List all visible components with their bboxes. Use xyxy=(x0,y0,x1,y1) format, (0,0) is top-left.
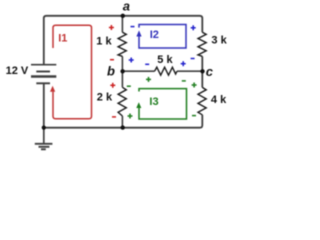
plus green R4 top (I3) xyxy=(192,83,197,88)
wire: 2k down to bottom junction xyxy=(121,116,123,128)
node b dot xyxy=(120,69,124,73)
ground xyxy=(35,128,53,150)
minus green R4 bottom (I3) xyxy=(192,115,196,117)
plus red R1 top (I1) xyxy=(109,25,114,30)
plus blue R3 top (I2) xyxy=(191,25,196,30)
wire: 1k down to node b xyxy=(121,56,123,71)
svg-text:1 k: 1 k xyxy=(96,36,112,48)
wire: right side between 3k and 4k through node c xyxy=(201,56,203,87)
svg-text:c: c xyxy=(206,64,214,79)
mesh current loop I3 xyxy=(139,89,187,119)
junction dot 2k bottom xyxy=(121,125,125,129)
svg-text:I3: I3 xyxy=(149,96,158,108)
plus green R2 bottom (I3) xyxy=(128,114,133,119)
svg-text:b: b xyxy=(107,64,115,79)
minus blue R3 bottom (I2) xyxy=(191,58,195,60)
polarity marks xyxy=(109,25,197,119)
junction dot battery bottom xyxy=(42,126,46,130)
wire: battery bottom lead down to bottom-left junction xyxy=(43,83,45,127)
svg-text:4 k: 4 k xyxy=(211,94,227,106)
mesh current loop I1 xyxy=(53,25,92,119)
resistor R2 2k zigzag xyxy=(118,87,126,116)
wire: node b right to 5k xyxy=(122,70,154,72)
node c dot xyxy=(200,69,204,73)
svg-text:5 k: 5 k xyxy=(157,54,173,66)
wire: node a down to 1k xyxy=(121,16,123,33)
wire: 5k right to node c xyxy=(177,70,202,72)
plus blue R1 bottom (I2) xyxy=(129,58,134,63)
plus red R2 top (I1) xyxy=(110,83,115,88)
minus red R2 bottom (I1) xyxy=(112,116,116,118)
arrowhead I3 xyxy=(136,102,141,108)
mesh current loop I2 xyxy=(139,25,186,49)
plus green R5 left (I3) xyxy=(146,77,151,82)
svg-text:2 k: 2 k xyxy=(97,92,113,104)
svg-text:a: a xyxy=(123,0,130,14)
resistor R4 4k zigzag xyxy=(198,87,206,114)
resistor R1 1k zigzag xyxy=(118,32,126,56)
minus green R2 top (I3) xyxy=(127,85,131,87)
svg-text:12 V: 12 V xyxy=(6,65,29,77)
minus blue R1 top (I2) xyxy=(131,26,135,28)
arrowhead I1 xyxy=(50,86,55,92)
svg-text:I2: I2 xyxy=(150,29,159,41)
svg-text:I1: I1 xyxy=(58,32,67,44)
node a dot xyxy=(121,14,125,18)
resistor R5 5k zigzag xyxy=(155,67,177,75)
minus green R5 right (I3) xyxy=(182,80,186,82)
wire: top rail with left drop to battery and right drop to 3k xyxy=(44,16,203,65)
arrowhead I2 xyxy=(136,30,141,36)
svg-text:3 k: 3 k xyxy=(211,34,227,46)
minus red R1 bottom (I1) xyxy=(110,59,114,61)
resistor R3 3k zigzag xyxy=(198,32,206,56)
wire: node b down to 2k xyxy=(121,71,123,87)
plus blue R5 right (I2) xyxy=(181,61,186,66)
minus blue R5 left (I2) xyxy=(145,63,149,65)
wire: bottom rail and lower right side up to 4k xyxy=(44,115,203,128)
battery V1 plates xyxy=(31,65,56,84)
